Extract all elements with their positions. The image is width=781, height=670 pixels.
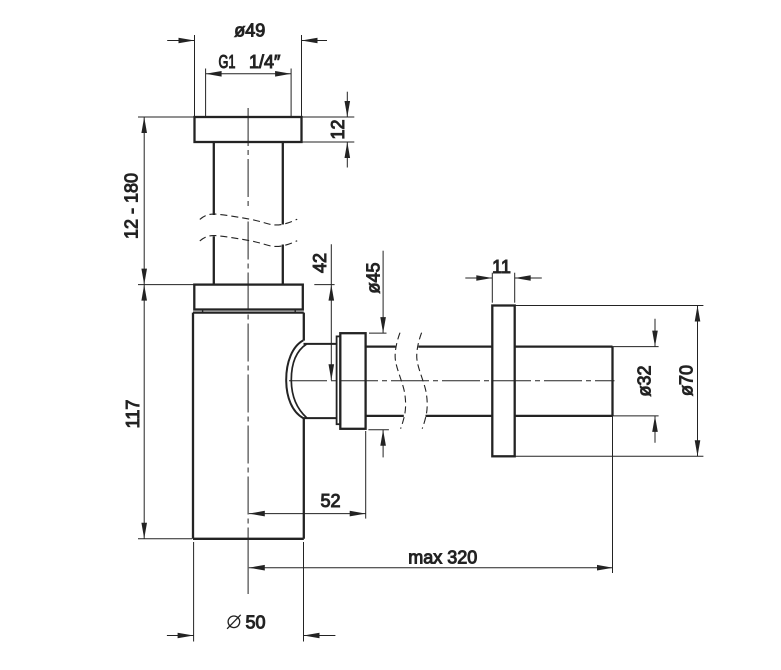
top flange (inlet nut, ø49)	[195, 117, 302, 142]
outlet neck top edge	[304, 343, 337, 345]
outlet pipe break curve right	[417, 333, 427, 429]
dimension 12 (flange height)	[302, 92, 355, 168]
outlet bell outer curve	[286, 340, 303, 418]
washer tick left	[202, 310, 204, 313]
dimension ⌀50 (bottom)	[167, 542, 336, 642]
svg-text:G1: G1	[219, 52, 236, 72]
outlet neck bottom edge	[304, 417, 337, 419]
dimension 52	[249, 431, 366, 519]
dimension ø45	[368, 251, 389, 458]
svg-text:ø32: ø32	[635, 365, 655, 396]
svg-text:12: 12	[328, 119, 348, 139]
outlet bell inner curve	[291, 344, 307, 418]
dimension 12 - 180 (left)	[138, 117, 195, 285]
svg-text:ø70: ø70	[677, 365, 697, 396]
dimension G1 1/4"	[206, 69, 292, 117]
svg-text:11: 11	[492, 257, 511, 277]
outlet pipe break curve left	[395, 333, 405, 429]
centerline vertical (body axis)	[247, 108, 249, 539]
dimension ø49	[167, 35, 327, 116]
dimension max 320	[249, 416, 613, 573]
outlet washer	[337, 336, 341, 424]
dimension 117 (left)	[138, 285, 192, 539]
svg-text:1/4″: 1/4″	[249, 52, 281, 72]
svg-text:42: 42	[310, 253, 330, 273]
dimension ø70	[515, 306, 704, 457]
outlet pipe top edge	[366, 345, 613, 347]
centerline horizontal (outlet pipe axis)	[289, 380, 615, 382]
trap body (cup)	[193, 313, 304, 539]
dimension 42	[314, 244, 334, 380]
outlet nut (ø45)	[340, 333, 365, 429]
dimension ø32	[613, 319, 659, 443]
inlet pipe left edge	[213, 142, 215, 285]
svg-text:50: 50	[246, 612, 266, 632]
svg-text:ø49: ø49	[234, 20, 265, 40]
trap body right edge (interrupted by outlet)	[303, 313, 305, 539]
inlet pipe break wave lower	[200, 236, 297, 247]
svg-text:ø45: ø45	[364, 262, 384, 293]
svg-text:12 - 180: 12 - 180	[122, 173, 142, 239]
outlet pipe bottom edge	[366, 415, 613, 417]
trap nut (top of body)	[194, 285, 302, 310]
dimension 11 (wall flange)	[465, 273, 542, 303]
svg-text:max 320: max 320	[408, 548, 477, 568]
inlet pipe right edge	[282, 142, 284, 285]
wall flange (ø70)	[492, 306, 514, 457]
outlet pipe end edge	[611, 347, 613, 416]
centerline vertical extension below body (max320 / 52 reference)	[247, 539, 249, 594]
svg-text:117: 117	[123, 400, 143, 429]
svg-text:52: 52	[320, 491, 340, 511]
inlet pipe break wave upper	[200, 214, 297, 225]
slashed-circle diameter symbol	[227, 615, 241, 629]
washer tick right	[294, 310, 296, 313]
